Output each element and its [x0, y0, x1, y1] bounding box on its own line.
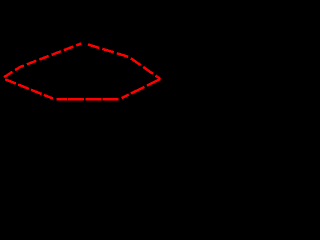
- red dashed polygon edge BL-L (lower-left): [5, 79, 53, 98]
- red dashed polygon chain T-N-R (upper-right, bend at N): [85, 44, 160, 79]
- red dashed polygon edge BR-BL (bottom): [57, 98, 119, 101]
- red dashed polygon chain L-M-T (upper-left, bend at M): [4, 44, 81, 78]
- red dashed polygon edge R-BR (lower-right): [122, 79, 161, 98]
- black dashed chain L-B-C-R (alpha-only in source; invisible on black): [4, 19, 160, 79]
